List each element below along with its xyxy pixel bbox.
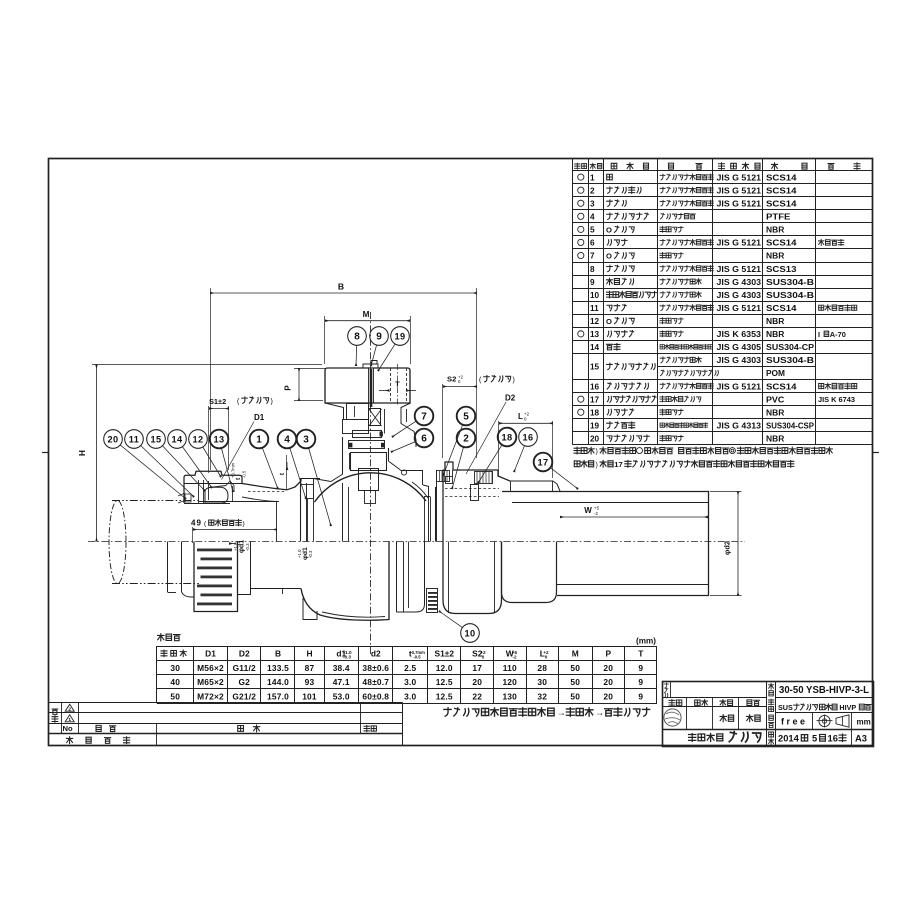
svg-text:M: M bbox=[572, 649, 579, 659]
balloon 18 bbox=[478, 428, 516, 483]
svg-text:0: 0 bbox=[482, 655, 485, 660]
balloon 7 bbox=[392, 407, 433, 437]
svg-text:17: 17 bbox=[472, 663, 482, 673]
svg-text:SUS304-CP: SUS304-CP bbox=[766, 343, 815, 352]
balloon 19 bbox=[378, 327, 409, 371]
svg-text:T: T bbox=[395, 380, 400, 389]
svg-text:mm: mm bbox=[857, 718, 871, 727]
svg-text:20: 20 bbox=[603, 663, 613, 673]
balloon 17 bbox=[534, 453, 578, 489]
svg-text:-0.5: -0.5 bbox=[242, 470, 247, 478]
svg-text:-0.5: -0.5 bbox=[413, 655, 421, 660]
svg-text:120: 120 bbox=[502, 677, 517, 687]
svg-text:): ) bbox=[513, 377, 515, 384]
svg-text:SCS13: SCS13 bbox=[766, 265, 797, 274]
union nut section outline bbox=[437, 462, 511, 542]
svg-text:SUS: SUS bbox=[778, 703, 793, 712]
svg-text:49: 49 bbox=[191, 519, 202, 528]
svg-text:SUS304-CSP: SUS304-CSP bbox=[766, 421, 815, 430]
set screw with cross bbox=[369, 409, 385, 434]
guide nut cap bottom line bbox=[184, 503, 230, 505]
body tailpiece exterior bbox=[397, 542, 425, 613]
revision block labels bbox=[52, 704, 376, 743]
svg-text:H: H bbox=[78, 450, 87, 456]
dimension T bbox=[379, 380, 416, 391]
svg-text:NBR: NBR bbox=[766, 330, 785, 339]
svg-text:): ) bbox=[271, 398, 273, 405]
svg-text:50: 50 bbox=[570, 677, 580, 687]
svg-text:M72×2: M72×2 bbox=[197, 691, 224, 701]
svg-text:130: 130 bbox=[502, 691, 517, 701]
product name SUS ball valve bbox=[778, 703, 871, 712]
svg-text:D1: D1 bbox=[254, 413, 265, 422]
svg-text:14: 14 bbox=[590, 343, 600, 352]
svg-text:19: 19 bbox=[590, 421, 600, 430]
svg-text:1: 1 bbox=[256, 435, 262, 446]
svg-text:15: 15 bbox=[150, 435, 161, 445]
dimension 49 groove position bbox=[191, 519, 277, 544]
svg-text:-0.3: -0.3 bbox=[343, 655, 351, 660]
svg-text:1: 1 bbox=[590, 173, 595, 182]
note 1 under parts table bbox=[574, 447, 832, 455]
svg-text:POM: POM bbox=[766, 369, 785, 378]
svg-text:101: 101 bbox=[302, 691, 317, 701]
lower edge of socket section to body bbox=[242, 497, 279, 502]
svg-text:110: 110 bbox=[503, 663, 517, 673]
chuck ring section bbox=[209, 481, 234, 492]
svg-text:G11/2: G11/2 bbox=[233, 663, 256, 673]
svg-text:13: 13 bbox=[213, 435, 224, 445]
company name 株式会社タブチ bbox=[689, 732, 761, 742]
left gland block bbox=[343, 404, 369, 434]
svg-text:SUS304-B: SUS304-B bbox=[766, 356, 814, 365]
svg-text:SCS14: SCS14 bbox=[766, 186, 797, 195]
title block grid bbox=[662, 681, 874, 746]
border frame bbox=[49, 159, 873, 746]
svg-text:): ) bbox=[596, 462, 598, 469]
svg-text:G2: G2 bbox=[238, 677, 250, 687]
svg-text:3.0: 3.0 bbox=[404, 677, 416, 687]
svg-text:NBR: NBR bbox=[766, 317, 785, 326]
chuck ring vertical tick bbox=[232, 486, 234, 502]
balloon 20 bbox=[104, 430, 186, 499]
svg-text:f r e e: f r e e bbox=[781, 717, 805, 727]
svg-text:-0.3: -0.3 bbox=[308, 550, 313, 558]
svg-text:PVC: PVC bbox=[766, 395, 785, 404]
svg-text:7: 7 bbox=[590, 252, 595, 261]
svg-text:M56×2: M56×2 bbox=[197, 663, 224, 673]
svg-text:S1±2: S1±2 bbox=[435, 649, 455, 659]
svg-text:M65×2: M65×2 bbox=[197, 677, 224, 687]
svg-text:B: B bbox=[338, 282, 344, 292]
left edge centre fold tick bbox=[42, 452, 49, 454]
balloon 11 bbox=[125, 430, 194, 497]
socket collar section bbox=[510, 481, 560, 491]
left pipe phantom outline bbox=[109, 501, 199, 584]
svg-text:→: → bbox=[595, 707, 604, 717]
svg-text:12.5: 12.5 bbox=[436, 677, 453, 687]
svg-text:→: → bbox=[557, 707, 566, 717]
right edge centre fold tick bbox=[873, 452, 879, 454]
svg-text:40: 40 bbox=[170, 677, 180, 687]
dimension table header bbox=[161, 649, 644, 660]
svg-text:8: 8 bbox=[354, 332, 360, 343]
label D2 with leader bbox=[466, 394, 516, 475]
svg-text:JIS G 5121: JIS G 5121 bbox=[717, 173, 762, 182]
valve body left flange section bbox=[301, 478, 321, 542]
svg-text:38.4: 38.4 bbox=[333, 663, 350, 673]
svg-text:P: P bbox=[605, 649, 611, 659]
svg-text:12: 12 bbox=[192, 435, 203, 445]
date 2014年5月16日 bbox=[778, 733, 846, 744]
balloon 4 bbox=[278, 430, 306, 499]
svg-text:9: 9 bbox=[376, 332, 382, 343]
svg-text:d2: d2 bbox=[371, 649, 381, 659]
svg-text:φd2: φd2 bbox=[723, 541, 732, 555]
svg-text:5: 5 bbox=[812, 733, 817, 744]
svg-text:NBR: NBR bbox=[766, 435, 785, 444]
dimension S2 with thread depth note bbox=[443, 374, 515, 458]
dimension P bbox=[284, 368, 326, 401]
balloon 16 bbox=[514, 428, 537, 472]
bonnet outline right side bbox=[389, 448, 401, 470]
title block vertical labels 品番/品名/尺度/日付 bbox=[768, 683, 773, 744]
handle stem cap bbox=[363, 361, 378, 369]
svg-text:(mm): (mm) bbox=[636, 637, 656, 646]
balloon 1 bbox=[250, 430, 278, 489]
svg-text:93: 93 bbox=[305, 677, 315, 687]
svg-text:+0.7mm: +0.7mm bbox=[231, 462, 236, 478]
svg-text:O: O bbox=[606, 317, 612, 326]
union nut thread dashes bbox=[445, 489, 499, 497]
packing blob section (left) bbox=[205, 487, 228, 503]
svg-text:2.5: 2.5 bbox=[404, 663, 416, 673]
svg-text:3.0: 3.0 bbox=[404, 691, 416, 701]
o-ring 5 section bbox=[446, 477, 453, 484]
svg-text:17: 17 bbox=[614, 460, 622, 469]
svg-text:S1±2: S1±2 bbox=[209, 397, 226, 406]
svg-text:3: 3 bbox=[303, 435, 309, 446]
svg-text:A-70: A-70 bbox=[830, 330, 846, 339]
svg-text:HIVP: HIVP bbox=[839, 703, 856, 712]
svg-text:No: No bbox=[63, 724, 73, 733]
packing 18 section bbox=[471, 485, 479, 501]
label D1 with leader bbox=[222, 413, 265, 480]
dimension W bbox=[560, 506, 708, 517]
svg-text:4: 4 bbox=[284, 435, 290, 446]
svg-text:JIS G 5121: JIS G 5121 bbox=[717, 239, 762, 248]
handle hidden hole dashed bbox=[391, 364, 407, 406]
body right inner wall bbox=[401, 470, 436, 542]
balloon 5 bbox=[443, 407, 475, 476]
svg-text:SCS14: SCS14 bbox=[766, 199, 797, 208]
svg-text:S2: S2 bbox=[447, 375, 456, 384]
svg-text:JIS G 5121: JIS G 5121 bbox=[717, 382, 762, 391]
svg-text:D2: D2 bbox=[239, 649, 250, 659]
svg-text:16: 16 bbox=[828, 733, 838, 744]
svg-text:30: 30 bbox=[537, 677, 547, 687]
left collar exterior bbox=[168, 542, 195, 598]
handle neck left bbox=[325, 403, 344, 420]
svg-text:I: I bbox=[818, 330, 820, 339]
approval stamp bbox=[664, 709, 681, 726]
parts table header row bbox=[575, 163, 860, 170]
svg-text:O: O bbox=[606, 226, 612, 235]
svg-text:38±0.6: 38±0.6 bbox=[362, 663, 389, 673]
svg-text:2: 2 bbox=[463, 434, 469, 445]
dimension S1 with thread depth note bbox=[209, 397, 273, 473]
svg-text:4: 4 bbox=[590, 213, 595, 222]
balloon 15 bbox=[147, 430, 205, 491]
balloon 3 bbox=[297, 430, 331, 526]
svg-text:JIS G 5121: JIS G 5121 bbox=[717, 199, 762, 208]
svg-text:2: 2 bbox=[590, 186, 595, 195]
left union nut knurled exterior bbox=[194, 542, 238, 612]
svg-text:12: 12 bbox=[590, 317, 600, 326]
svg-text:9: 9 bbox=[590, 278, 595, 287]
svg-text:SCS14: SCS14 bbox=[766, 382, 797, 391]
svg-text:PTFE: PTFE bbox=[766, 213, 791, 222]
svg-text:SCS14: SCS14 bbox=[766, 239, 797, 248]
svg-text:JIS K 6743: JIS K 6743 bbox=[818, 395, 855, 404]
svg-text:9: 9 bbox=[638, 663, 643, 673]
balloon 12 bbox=[189, 430, 221, 477]
svg-text:1: 1 bbox=[68, 717, 71, 723]
left pipe end inside valve bbox=[199, 501, 277, 542]
dimension phi d2 bbox=[710, 491, 742, 596]
svg-text:JIS G 5121: JIS G 5121 bbox=[717, 265, 762, 274]
vertical stem centerline bbox=[370, 312, 372, 655]
horizontal pipe centerline bbox=[88, 541, 745, 543]
svg-text:18: 18 bbox=[501, 433, 512, 443]
dimension B bbox=[210, 282, 477, 471]
svg-text:2: 2 bbox=[68, 707, 71, 713]
thread dashed line (left socket) bbox=[248, 491, 286, 493]
balloon 10 bbox=[439, 611, 479, 642]
ball press ring arc bbox=[412, 482, 428, 498]
svg-text:2014: 2014 bbox=[778, 733, 800, 744]
svg-text:50: 50 bbox=[570, 663, 580, 673]
svg-text:SUS304-B: SUS304-B bbox=[766, 278, 814, 287]
balloon 2 bbox=[452, 429, 475, 489]
svg-text:20: 20 bbox=[603, 677, 613, 687]
svg-text:JIS G 4303: JIS G 4303 bbox=[717, 278, 762, 287]
svg-text:14: 14 bbox=[171, 435, 183, 445]
svg-text:NBR: NBR bbox=[766, 252, 785, 261]
svg-text:SCS14: SCS14 bbox=[766, 304, 797, 313]
extension tick near body flange bbox=[279, 455, 287, 489]
svg-text:H: H bbox=[306, 649, 312, 659]
left step flange exterior bbox=[238, 542, 252, 595]
handle plate bbox=[325, 368, 410, 403]
svg-text:8: 8 bbox=[590, 265, 595, 274]
label t tolerance rotated bbox=[231, 462, 247, 480]
svg-text:60±0.8: 60±0.8 bbox=[362, 691, 389, 701]
svg-text:SCS14: SCS14 bbox=[766, 173, 797, 182]
svg-text:JIS K 6353: JIS K 6353 bbox=[717, 330, 762, 339]
svg-text:53.0: 53.0 bbox=[333, 691, 350, 701]
svg-text:9: 9 bbox=[638, 691, 643, 701]
union nut lower exterior bbox=[443, 542, 502, 614]
svg-text:-2: -2 bbox=[512, 655, 517, 660]
svg-text:17: 17 bbox=[590, 395, 600, 404]
parts table rows bbox=[578, 173, 857, 443]
svg-text:10: 10 bbox=[464, 629, 475, 639]
balloon 13 bbox=[210, 430, 233, 492]
svg-text:+1.0: +1.0 bbox=[297, 549, 302, 558]
guide nut cap section (left) bbox=[184, 471, 301, 503]
dimension L bbox=[499, 412, 554, 479]
washer stack section (left) bbox=[199, 480, 209, 503]
svg-text:-2: -2 bbox=[594, 511, 598, 516]
svg-text:30-50 YSB-HIVP-3-L: 30-50 YSB-HIVP-3-L bbox=[779, 685, 869, 696]
svg-text:30: 30 bbox=[170, 663, 180, 673]
dimension table data rows bbox=[170, 663, 643, 701]
note 2 under parts table bbox=[574, 460, 794, 469]
svg-text:JIS G 4305: JIS G 4305 bbox=[717, 343, 762, 352]
svg-text:-0.3: -0.3 bbox=[245, 543, 250, 551]
svg-text:50: 50 bbox=[170, 691, 180, 701]
svg-text:JIS G 5121: JIS G 5121 bbox=[717, 186, 762, 195]
svg-text:48±0.7: 48±0.7 bbox=[362, 677, 389, 687]
third angle projection symbol bbox=[817, 715, 850, 728]
svg-text:A3: A3 bbox=[855, 733, 867, 744]
svg-text:12.0: 12.0 bbox=[436, 663, 453, 673]
svg-text:20: 20 bbox=[603, 691, 613, 701]
handle skirt right bbox=[401, 403, 416, 447]
svg-text:NBR: NBR bbox=[766, 226, 785, 235]
svg-text:G21/2: G21/2 bbox=[232, 691, 256, 701]
svg-text:D2: D2 bbox=[505, 394, 516, 403]
svg-text:16: 16 bbox=[522, 433, 533, 443]
svg-text:5: 5 bbox=[463, 412, 469, 423]
dimension M bbox=[325, 310, 411, 364]
svg-text:JIS G 4303: JIS G 4303 bbox=[717, 291, 762, 300]
svg-text:3: 3 bbox=[590, 199, 595, 208]
svg-text:JIS G 5121: JIS G 5121 bbox=[717, 304, 762, 313]
revision history block grid bbox=[49, 702, 403, 746]
dimension H bbox=[78, 365, 322, 542]
thread hatch right of bonnet bbox=[437, 471, 450, 483]
dust seal bits (left) bbox=[178, 493, 191, 503]
svg-text:W: W bbox=[584, 506, 592, 515]
balloon 9 bbox=[370, 327, 389, 366]
dimension table title 寸法表 bbox=[158, 634, 181, 641]
svg-text:JIS G 4313: JIS G 4313 bbox=[717, 421, 762, 430]
svg-text:133.5: 133.5 bbox=[267, 663, 289, 673]
stem gland rings bbox=[349, 431, 387, 471]
svg-text:50: 50 bbox=[570, 691, 580, 701]
svg-text:): ) bbox=[243, 521, 245, 528]
svg-text:0: 0 bbox=[545, 655, 548, 660]
svg-text:22: 22 bbox=[472, 691, 482, 701]
balloon 14 bbox=[168, 430, 212, 488]
stem slot through handle bbox=[370, 369, 373, 407]
svg-text:28: 28 bbox=[537, 663, 547, 673]
svg-text:16: 16 bbox=[590, 382, 600, 391]
svg-text:NBR: NBR bbox=[766, 408, 785, 417]
svg-text:P: P bbox=[284, 385, 293, 391]
svg-text:13: 13 bbox=[590, 330, 600, 339]
svg-text:M: M bbox=[363, 310, 370, 319]
svg-text:T: T bbox=[638, 649, 644, 659]
svg-text:20: 20 bbox=[107, 435, 118, 445]
label phi d1 rotated bbox=[229, 540, 250, 553]
svg-text:11: 11 bbox=[129, 435, 140, 445]
svg-text:SUS304-B: SUS304-B bbox=[766, 291, 814, 300]
svg-text:20: 20 bbox=[590, 435, 600, 444]
svg-text:5: 5 bbox=[590, 226, 595, 235]
svg-text:O: O bbox=[606, 252, 612, 261]
dimension table grid bbox=[157, 646, 658, 704]
label phi d1 second rotated near body bbox=[297, 547, 313, 560]
svg-text:144.0: 144.0 bbox=[267, 677, 289, 687]
handle direction note bbox=[444, 707, 650, 717]
svg-text:6: 6 bbox=[590, 239, 595, 248]
svg-text:D1: D1 bbox=[205, 649, 216, 659]
ball stem slot bbox=[359, 469, 379, 504]
svg-text:7: 7 bbox=[421, 412, 427, 423]
ball upper arc bbox=[315, 473, 427, 502]
ball seat left bbox=[308, 498, 314, 542]
body lower exterior bbox=[301, 542, 389, 621]
svg-text:L: L bbox=[518, 412, 523, 421]
svg-text:12.5: 12.5 bbox=[436, 691, 453, 701]
left neck exterior bbox=[251, 589, 301, 595]
svg-text:18: 18 bbox=[590, 408, 600, 417]
svg-text:6: 6 bbox=[421, 434, 427, 445]
svg-text:15: 15 bbox=[590, 363, 600, 372]
svg-text:10: 10 bbox=[590, 291, 600, 300]
svg-text:32: 32 bbox=[537, 691, 547, 701]
svg-text:): ) bbox=[596, 449, 598, 456]
socket collar lower exterior bbox=[502, 542, 557, 603]
svg-text:B: B bbox=[275, 649, 281, 659]
svg-text:17: 17 bbox=[537, 458, 548, 468]
balloon 6 bbox=[391, 429, 433, 452]
spring washer & bolt hatched block bbox=[475, 472, 493, 484]
svg-text:47.1: 47.1 bbox=[333, 677, 350, 687]
svg-text:87: 87 bbox=[305, 663, 315, 673]
svg-text:19: 19 bbox=[394, 332, 405, 342]
knurled ring 10 exterior bbox=[427, 589, 438, 613]
svg-text:JIS G 4303: JIS G 4303 bbox=[717, 356, 762, 365]
svg-text:20: 20 bbox=[472, 677, 482, 687]
balloon 8 bbox=[348, 327, 367, 366]
right socket cylinder bbox=[502, 491, 709, 596]
svg-text:11: 11 bbox=[590, 304, 599, 313]
ball seat right bbox=[424, 497, 431, 542]
bonnet outline left side bbox=[314, 437, 349, 542]
parts table grid bbox=[573, 159, 874, 445]
bonnet O-ring 12 bbox=[401, 470, 406, 475]
title block labels left column bbox=[664, 683, 760, 722]
svg-text:9: 9 bbox=[638, 677, 643, 687]
svg-text:157.0: 157.0 bbox=[267, 691, 289, 701]
